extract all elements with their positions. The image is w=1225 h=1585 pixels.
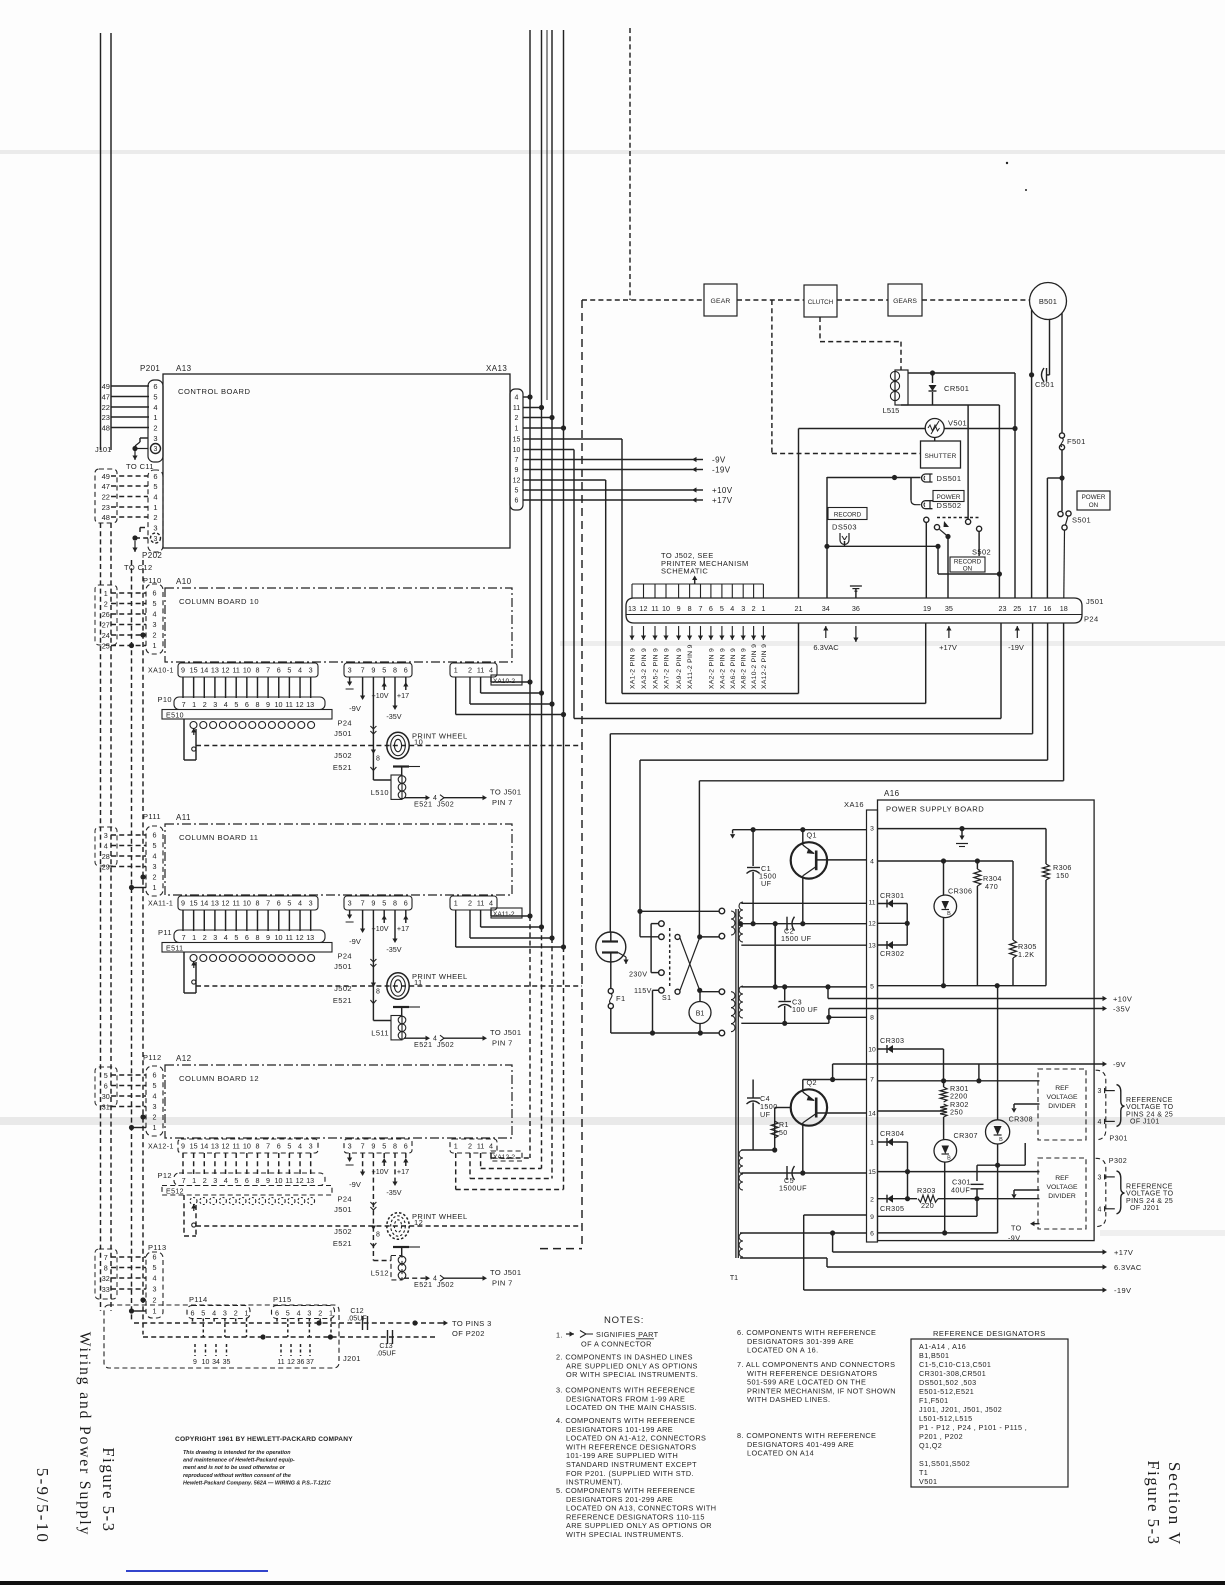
svg-text:XA13: XA13 [486, 364, 507, 373]
svg-text:7: 7 [182, 700, 186, 709]
svg-text:+10V: +10V [1113, 995, 1132, 1004]
svg-text:2: 2 [153, 631, 157, 640]
svg-text:-9V: -9V [349, 1180, 361, 1189]
svg-text:11: 11 [232, 1142, 239, 1151]
svg-text:3: 3 [223, 1309, 227, 1318]
svg-text:5: 5 [234, 1176, 238, 1185]
svg-text:A16: A16 [884, 789, 900, 798]
svg-text:23: 23 [999, 604, 1007, 613]
svg-text:Figure 5-3: Figure 5-3 [99, 1447, 118, 1532]
svg-text:17: 17 [1029, 604, 1037, 613]
svg-text:REF: REF [1055, 1085, 1069, 1092]
svg-text:8: 8 [688, 604, 692, 613]
svg-text:CONTROL BOARD: CONTROL BOARD [178, 387, 250, 396]
svg-text:13: 13 [868, 943, 876, 950]
svg-text:10: 10 [275, 933, 283, 942]
svg-text:P111: P111 [143, 812, 161, 821]
svg-text:5: 5 [201, 1309, 205, 1318]
svg-text:6. COMPONENTS WITH REFERENCE: 6. COMPONENTS WITH REFERENCE [737, 1328, 876, 1337]
svg-text:TO C11: TO C11 [126, 462, 154, 471]
svg-text:4: 4 [730, 604, 734, 613]
svg-text:3: 3 [213, 700, 217, 709]
svg-text:8: 8 [393, 1142, 397, 1151]
svg-text:15: 15 [190, 1142, 198, 1151]
svg-text:E521: E521 [333, 1239, 352, 1248]
svg-text:NOTES:: NOTES: [604, 1315, 644, 1326]
svg-text:RECORD: RECORD [834, 512, 862, 519]
svg-text:4: 4 [870, 859, 874, 866]
svg-text:6: 6 [404, 1142, 408, 1151]
svg-text:6: 6 [153, 472, 157, 481]
svg-text:-35V: -35V [386, 1188, 401, 1197]
svg-text:1: 1 [192, 1176, 196, 1185]
svg-text:DIVIDER: DIVIDER [1048, 1193, 1076, 1200]
svg-text:CLUTCH: CLUTCH [808, 299, 834, 306]
svg-text:XA9-2 PIN 9: XA9-2 PIN 9 [676, 648, 683, 689]
svg-text:10: 10 [243, 1142, 251, 1151]
svg-text:3: 3 [154, 536, 158, 543]
svg-text:11: 11 [477, 1142, 484, 1151]
svg-text:POWER: POWER [1082, 494, 1106, 501]
svg-text:1.: 1. [556, 1331, 563, 1340]
svg-text:2: 2 [153, 1113, 157, 1122]
svg-text:7: 7 [182, 1176, 186, 1185]
svg-text:470: 470 [985, 882, 998, 891]
svg-text:14: 14 [868, 1111, 876, 1118]
svg-text:CR301: CR301 [880, 891, 904, 900]
svg-text:VOLTAGE TO: VOLTAGE TO [1126, 1191, 1174, 1198]
svg-text:9: 9 [371, 899, 375, 908]
svg-text:2: 2 [515, 415, 519, 422]
svg-text:J101, J201, J501, J502: J101, J201, J501, J502 [919, 1405, 1002, 1414]
svg-text:3: 3 [104, 831, 108, 840]
svg-text:14: 14 [200, 666, 208, 675]
svg-text:2: 2 [752, 604, 756, 613]
svg-text:WITH REFERENCE DESIGNATORS: WITH REFERENCE DESIGNATORS [566, 1442, 697, 1451]
svg-text:8: 8 [255, 1176, 259, 1185]
svg-text:6: 6 [515, 498, 519, 505]
svg-text:8: 8 [376, 989, 380, 996]
svg-text:ON: ON [963, 566, 973, 573]
svg-text:POWER SUPPLY BOARD: POWER SUPPLY BOARD [886, 805, 984, 814]
svg-text:E501-512,E521: E501-512,E521 [919, 1387, 974, 1396]
svg-text:8: 8 [376, 1232, 380, 1239]
svg-text:P302: P302 [1109, 1156, 1127, 1165]
svg-text:9: 9 [181, 1142, 185, 1151]
svg-text:31: 31 [102, 1102, 110, 1111]
svg-text:L501-512,L515: L501-512,L515 [919, 1414, 973, 1423]
svg-text:9: 9 [181, 666, 185, 675]
svg-text:ARE SUPPLIED ONLY AS OPTIONS: ARE SUPPLIED ONLY AS OPTIONS [566, 1361, 698, 1370]
svg-text:CR302: CR302 [880, 949, 904, 958]
svg-text:T1: T1 [730, 1275, 738, 1282]
svg-text:3: 3 [213, 933, 217, 942]
svg-text:C1-5,C10-C13,C501: C1-5,C10-C13,C501 [919, 1360, 991, 1369]
svg-text:15: 15 [190, 666, 198, 675]
svg-text:CR501: CR501 [944, 384, 969, 393]
svg-text:22: 22 [102, 403, 110, 412]
svg-text:1: 1 [454, 899, 458, 908]
svg-text:XA11-2 PIN 9: XA11-2 PIN 9 [687, 644, 694, 689]
svg-text:LOCATED ON THE MAIN CHASSIS.: LOCATED ON THE MAIN CHASSIS. [566, 1403, 697, 1412]
svg-text:13: 13 [306, 1176, 314, 1185]
svg-text:XA2-2 PIN 9: XA2-2 PIN 9 [708, 648, 715, 689]
svg-text:6: 6 [245, 1176, 249, 1185]
svg-text:13: 13 [211, 666, 219, 675]
svg-text:30: 30 [102, 1092, 110, 1101]
svg-text:3: 3 [213, 1176, 217, 1185]
svg-text:-35V: -35V [386, 945, 401, 954]
svg-text:13: 13 [628, 604, 636, 613]
svg-text:501-599 ARE LOCATED ON THE: 501-599 ARE LOCATED ON THE [747, 1378, 866, 1387]
svg-text:5: 5 [515, 488, 519, 495]
svg-text:2: 2 [870, 1196, 874, 1203]
svg-text:11: 11 [285, 933, 292, 942]
svg-text:PIN 7: PIN 7 [492, 1039, 513, 1048]
svg-text:4: 4 [297, 1309, 301, 1318]
svg-text:9: 9 [181, 899, 185, 908]
svg-text:7: 7 [699, 604, 703, 613]
svg-text:40UF: 40UF [951, 1186, 970, 1195]
svg-text:115V: 115V [634, 986, 652, 995]
svg-text:4: 4 [489, 666, 493, 675]
svg-text:8: 8 [104, 1263, 108, 1272]
svg-text:1: 1 [153, 413, 157, 422]
svg-text:6: 6 [191, 1309, 195, 1318]
svg-text:4: 4 [153, 1092, 157, 1101]
svg-text:11: 11 [477, 666, 484, 675]
svg-text:P24: P24 [337, 1195, 352, 1204]
svg-text:11: 11 [285, 1176, 292, 1185]
svg-text:P11: P11 [158, 928, 172, 937]
svg-text:5: 5 [153, 392, 157, 401]
svg-text:ARE SUPPLIED ONLY AS OPTIONS O: ARE SUPPLIED ONLY AS OPTIONS OR [566, 1521, 712, 1530]
svg-text:2: 2 [203, 933, 207, 942]
svg-text:8: 8 [870, 1015, 874, 1022]
svg-text:13: 13 [211, 899, 219, 908]
svg-text:2: 2 [468, 1142, 472, 1151]
svg-text:1: 1 [153, 883, 157, 892]
svg-text:3. COMPONENTS WITH REFERENCE: 3. COMPONENTS WITH REFERENCE [556, 1386, 695, 1395]
svg-text:22: 22 [102, 492, 110, 501]
svg-text:11: 11 [232, 666, 239, 675]
svg-text:VOLTAGE: VOLTAGE [1046, 1094, 1078, 1101]
svg-text:TO J501: TO J501 [490, 1268, 521, 1277]
svg-text:+17: +17 [397, 691, 409, 700]
svg-text:OF J201: OF J201 [1130, 1205, 1160, 1212]
svg-text:OF P202: OF P202 [452, 1329, 485, 1338]
svg-text:5: 5 [153, 1263, 157, 1272]
svg-text:V501: V501 [948, 419, 967, 428]
svg-text:2: 2 [234, 1309, 238, 1318]
svg-text:3: 3 [153, 862, 157, 871]
svg-text:4: 4 [153, 1274, 157, 1283]
svg-text:P114: P114 [189, 1295, 208, 1304]
svg-text:1: 1 [245, 1309, 249, 1318]
svg-text:7: 7 [266, 1142, 270, 1151]
svg-text:37: 37 [306, 1359, 314, 1366]
svg-text:7: 7 [266, 666, 270, 675]
svg-text:2: 2 [203, 700, 207, 709]
svg-text:4: 4 [1098, 1119, 1102, 1126]
svg-text:6: 6 [153, 1071, 157, 1080]
svg-text:12: 12 [513, 478, 521, 485]
svg-text:3: 3 [154, 446, 158, 453]
svg-text:XA12-1: XA12-1 [148, 1144, 174, 1151]
svg-text:CR301-308,CR501: CR301-308,CR501 [919, 1369, 986, 1378]
svg-text:12: 12 [640, 604, 648, 613]
svg-text:9: 9 [515, 467, 519, 474]
svg-text:8: 8 [255, 899, 259, 908]
svg-text:12: 12 [414, 1218, 423, 1227]
svg-text:7: 7 [361, 666, 365, 675]
svg-text:TO PINS 3: TO PINS 3 [452, 1319, 492, 1328]
svg-text:1500 UF: 1500 UF [781, 934, 812, 943]
svg-text:12: 12 [296, 1176, 304, 1185]
svg-text:9: 9 [266, 1176, 270, 1185]
svg-text:DS503: DS503 [832, 523, 857, 532]
svg-text:6: 6 [277, 666, 281, 675]
svg-text:XA11-2: XA11-2 [493, 911, 515, 918]
svg-text:3: 3 [1098, 1088, 1102, 1095]
svg-text:7: 7 [361, 1142, 365, 1151]
svg-text:19: 19 [923, 604, 931, 613]
svg-text:8: 8 [393, 666, 397, 675]
svg-text:13: 13 [306, 700, 314, 709]
svg-text:OF J101: OF J101 [1130, 1119, 1160, 1126]
svg-text:8. COMPONENTS WITH REFERENCE: 8. COMPONENTS WITH REFERENCE [737, 1431, 876, 1440]
svg-text:J502: J502 [437, 1280, 454, 1289]
svg-text:5-9/5-10: 5-9/5-10 [33, 1468, 52, 1544]
svg-text:J502: J502 [334, 751, 352, 760]
svg-text:4: 4 [104, 841, 108, 850]
svg-text:E511: E511 [166, 946, 183, 953]
svg-text:5: 5 [720, 604, 724, 613]
svg-text:CR304: CR304 [880, 1129, 904, 1138]
svg-text:5: 5 [234, 933, 238, 942]
svg-text:18: 18 [1060, 604, 1068, 613]
svg-text:B: B [947, 1156, 951, 1162]
svg-text:-19V: -19V [1114, 1286, 1131, 1295]
svg-text:P112: P112 [143, 1053, 162, 1062]
svg-text:29: 29 [102, 862, 110, 871]
svg-text:UF: UF [761, 879, 772, 888]
svg-text:9: 9 [677, 604, 681, 613]
svg-text:F1,F501: F1,F501 [919, 1396, 949, 1405]
svg-text:5: 5 [104, 1071, 108, 1080]
svg-text:4: 4 [489, 1142, 493, 1151]
svg-text:XA1-2 PIN 9: XA1-2 PIN 9 [630, 648, 637, 689]
svg-text:J501: J501 [1086, 597, 1104, 606]
svg-text:A10: A10 [176, 577, 192, 586]
svg-text:STANDARD INSTRUMENT EXCEPT: STANDARD INSTRUMENT EXCEPT [566, 1460, 697, 1469]
svg-text:4: 4 [153, 610, 157, 619]
svg-text:A1-A14 , A16: A1-A14 , A16 [919, 1342, 966, 1351]
svg-text:6: 6 [153, 589, 157, 598]
svg-text:7: 7 [870, 1077, 874, 1084]
svg-text:A11: A11 [176, 813, 191, 822]
svg-text:48: 48 [102, 513, 110, 522]
svg-text:GEAR: GEAR [710, 298, 730, 305]
svg-text:12: 12 [222, 1142, 230, 1151]
svg-text:8: 8 [255, 1142, 259, 1151]
svg-text:Figure 5-3: Figure 5-3 [1144, 1460, 1163, 1545]
svg-text:6: 6 [404, 899, 408, 908]
svg-text:16: 16 [1043, 604, 1051, 613]
svg-text:J501: J501 [334, 962, 352, 971]
svg-text:TO J501: TO J501 [490, 788, 521, 797]
svg-text:P113: P113 [148, 1243, 167, 1252]
svg-text:7: 7 [266, 899, 270, 908]
svg-text:13: 13 [211, 1142, 219, 1151]
svg-text:1: 1 [454, 666, 458, 675]
svg-text:-9V: -9V [1113, 1060, 1126, 1069]
svg-text:32: 32 [102, 1274, 110, 1283]
svg-text:26: 26 [102, 610, 110, 619]
svg-text:F501: F501 [1067, 437, 1086, 446]
svg-text:1: 1 [515, 426, 519, 433]
svg-text:3: 3 [348, 1142, 352, 1151]
svg-text:+17: +17 [397, 1167, 409, 1176]
svg-text:6: 6 [245, 933, 249, 942]
svg-text:J501: J501 [334, 729, 352, 738]
svg-text:S1,S501,S502: S1,S501,S502 [919, 1459, 970, 1468]
svg-text:-9V: -9V [349, 704, 361, 713]
svg-text:24: 24 [102, 631, 110, 640]
svg-text:34: 34 [212, 1359, 220, 1366]
svg-text:S501: S501 [1072, 516, 1091, 525]
svg-text:P12: P12 [157, 1171, 172, 1180]
svg-text:8: 8 [255, 700, 259, 709]
svg-text:DS501,502 ,503: DS501,502 ,503 [919, 1378, 977, 1387]
svg-text:5: 5 [153, 599, 157, 608]
svg-text:4: 4 [298, 666, 302, 675]
svg-text:PRINTER MECHANISM, IF NOT SHOW: PRINTER MECHANISM, IF NOT SHOWN [747, 1386, 896, 1395]
svg-text:34: 34 [822, 604, 830, 613]
svg-text:3: 3 [1098, 1175, 1102, 1182]
svg-text:5: 5 [287, 899, 291, 908]
svg-text:7: 7 [104, 1253, 108, 1262]
svg-text:PIN 7: PIN 7 [492, 1279, 513, 1288]
svg-text:47: 47 [102, 392, 110, 401]
svg-text:SHUTTER: SHUTTER [924, 453, 956, 460]
svg-text:REF: REF [1055, 1175, 1069, 1182]
svg-text:SCHEMATIC: SCHEMATIC [661, 567, 708, 576]
svg-text:DESIGNATORS 301-399 ARE: DESIGNATORS 301-399 ARE [747, 1337, 854, 1346]
svg-text:1.2K: 1.2K [1018, 950, 1034, 959]
svg-text:Section V: Section V [1165, 1462, 1184, 1546]
svg-text:35: 35 [223, 1359, 231, 1366]
svg-text:4: 4 [489, 899, 493, 908]
svg-text:5: 5 [287, 1142, 291, 1151]
svg-text:2: 2 [153, 1296, 157, 1305]
svg-text:3: 3 [153, 523, 157, 532]
svg-text:8: 8 [393, 899, 397, 908]
svg-text:4: 4 [212, 1309, 216, 1318]
svg-text:J201: J201 [343, 1354, 361, 1363]
svg-text:reproduced without written: reproduced without written consent of th… [183, 1473, 291, 1479]
svg-text:VOLTAGE TO: VOLTAGE TO [1126, 1104, 1174, 1111]
svg-text:-9V: -9V [349, 937, 361, 946]
svg-text:3: 3 [307, 1309, 311, 1318]
svg-text:B501: B501 [1039, 297, 1057, 306]
svg-text:10: 10 [202, 1359, 210, 1366]
svg-text:230V: 230V [629, 969, 647, 978]
svg-text:+17V: +17V [939, 643, 957, 652]
svg-text:COLUMN BOARD 10: COLUMN BOARD 10 [179, 597, 259, 606]
svg-text:1500UF: 1500UF [779, 1184, 807, 1193]
svg-text:P24: P24 [337, 719, 352, 728]
svg-text:1: 1 [870, 1140, 874, 1147]
svg-text:6: 6 [153, 382, 157, 391]
svg-text:LOCATED ON A1-A12, CONNECTORS: LOCATED ON A1-A12, CONNECTORS [566, 1434, 706, 1443]
svg-text:REFERENCE DESIGNATORS 110-115: REFERENCE DESIGNATORS 110-115 [566, 1512, 705, 1521]
svg-text:7: 7 [182, 933, 186, 942]
svg-text:4: 4 [298, 1142, 302, 1151]
svg-text:UF: UF [760, 1110, 771, 1119]
svg-text:6: 6 [404, 666, 408, 675]
svg-text:+17V: +17V [1114, 1248, 1133, 1257]
svg-text:-9V: -9V [1008, 1234, 1020, 1243]
svg-text:2: 2 [468, 899, 472, 908]
svg-text:7: 7 [515, 457, 519, 464]
svg-text:SIGNIFIES PART: SIGNIFIES PART [596, 1330, 659, 1339]
svg-text:+17V: +17V [712, 496, 733, 505]
svg-text:REFERENCE: REFERENCE [1126, 1184, 1173, 1191]
svg-text:P202: P202 [142, 551, 162, 560]
svg-text:WITH SPECIAL INSTRUMENTS.: WITH SPECIAL INSTRUMENTS. [566, 1530, 684, 1539]
svg-text:6: 6 [275, 1309, 279, 1318]
svg-text:ment and is not to be us: ment and is not to be used otherwise or [183, 1465, 286, 1471]
svg-text:P24: P24 [337, 952, 352, 961]
svg-text:T1: T1 [919, 1468, 928, 1477]
svg-text:4: 4 [515, 395, 519, 402]
svg-text:XA11-1: XA11-1 [148, 901, 173, 908]
svg-text:4. COMPONENTS WITH REFERENCE: 4. COMPONENTS WITH REFERENCE [556, 1416, 695, 1425]
svg-text:6: 6 [153, 831, 157, 840]
svg-text:21: 21 [795, 604, 803, 613]
svg-text:5: 5 [153, 841, 157, 850]
svg-text:10: 10 [868, 1047, 876, 1054]
svg-text:F1: F1 [616, 994, 626, 1003]
svg-text:XA8-2 PIN 9: XA8-2 PIN 9 [741, 648, 748, 689]
svg-text:XA16: XA16 [844, 800, 864, 809]
svg-text:DIVIDER: DIVIDER [1048, 1103, 1076, 1110]
svg-text:E521: E521 [333, 763, 352, 772]
svg-text:DESIGNATORS 101-199 ARE: DESIGNATORS 101-199 ARE [566, 1425, 673, 1434]
svg-text:XA10-2 PIN 9: XA10-2 PIN 9 [751, 644, 758, 689]
svg-text:TO J501: TO J501 [490, 1028, 521, 1037]
svg-text:1: 1 [153, 1123, 157, 1132]
svg-text:L515: L515 [883, 406, 900, 415]
svg-text:13: 13 [306, 933, 314, 942]
svg-text:12: 12 [287, 1359, 295, 1366]
svg-text:DESIGNATORS 201-299 ARE: DESIGNATORS 201-299 ARE [566, 1495, 673, 1504]
svg-text:9: 9 [193, 1359, 197, 1366]
svg-text:15: 15 [190, 899, 198, 908]
svg-text:2: 2 [153, 873, 157, 882]
svg-text:36: 36 [852, 604, 860, 613]
svg-text:XA5-2 PIN 9: XA5-2 PIN 9 [653, 648, 660, 689]
svg-text:6.3VAC: 6.3VAC [813, 643, 839, 652]
svg-text:11: 11 [651, 604, 658, 613]
svg-text:25: 25 [1013, 604, 1021, 613]
svg-text:4: 4 [224, 1176, 228, 1185]
svg-text:This drawing is intended f: This drawing is intended for the operati… [183, 1450, 291, 1456]
svg-text:11: 11 [414, 978, 423, 987]
svg-text:12: 12 [222, 899, 230, 908]
svg-text:10: 10 [513, 447, 521, 454]
